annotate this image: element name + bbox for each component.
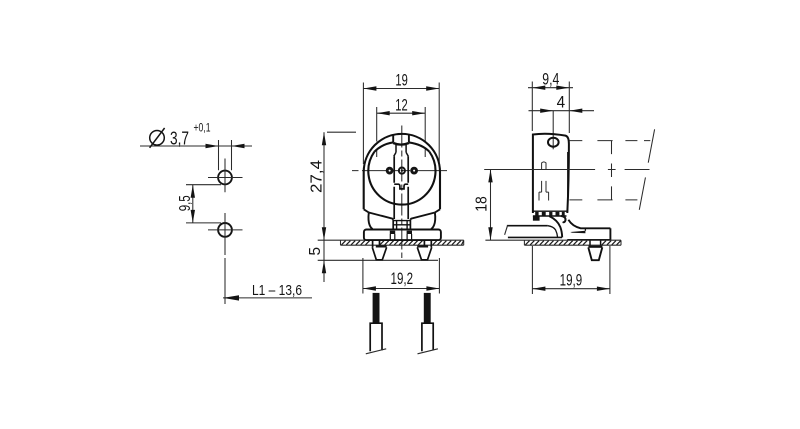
- 12 extension lines: [377, 107, 426, 142]
- svg-text:18: 18: [474, 196, 491, 212]
- neck outer verticals: [393, 219, 410, 229]
- hidden contact channel upper: [542, 162, 546, 170]
- mounting panel left end tick: [340, 240, 342, 245]
- 19,2 arrow right: [426, 286, 439, 290]
- phantom tube top line: [569, 140, 650, 142]
- dimension 19,2 extension lines: [363, 258, 440, 294]
- top hole ellipse: [548, 138, 559, 147]
- svg-text:L1 – 13,6: L1 – 13,6: [252, 283, 302, 299]
- svg-text:+0,1: +0,1: [194, 123, 211, 135]
- 9,4 extension lines: [532, 82, 569, 134]
- left wire break cut: [366, 349, 386, 354]
- neck horizontals: [393, 221, 410, 225]
- snap foot wings bar: [588, 246, 602, 248]
- base right edge: [609, 228, 611, 240]
- extension lines for diameter: [219, 140, 232, 170]
- svg-text:19,9: 19,9: [560, 272, 583, 290]
- svg-text:9,5: 9,5: [177, 195, 194, 211]
- dimension 19,9 line: [532, 288, 610, 290]
- phantom tube bottom line: [569, 199, 641, 201]
- left shoulder V line: [369, 213, 393, 220]
- neck inner verticals: [397, 221, 408, 229]
- dimension 9,5 extension line top: [186, 184, 221, 186]
- svg-text:9,4: 9,4: [542, 71, 559, 89]
- hole axis vertical line: [552, 111, 554, 150]
- base step vertical: [584, 228, 586, 231]
- horizontal centerline of front view: [352, 170, 447, 172]
- dimension 9,5 line: [192, 185, 194, 223]
- 4 arrow pointing right at hole axis: [540, 109, 553, 113]
- slot main verticals: [394, 156, 408, 183]
- snap foot trapezoid: [588, 247, 602, 260]
- dimension 5 line tail: [323, 240, 325, 282]
- dimension 19,9 extension lines: [532, 246, 610, 294]
- left step block: [533, 216, 540, 221]
- dimension diameter 3,7 leader line: [140, 145, 252, 147]
- 19 arrow left: [363, 86, 376, 90]
- lamp tube centerline: [484, 169, 649, 171]
- left foot shoulder: [376, 245, 387, 247]
- vertical centerline of front view: [401, 126, 403, 259]
- mounting panel bottom line: [341, 244, 464, 246]
- 19 extension lines: [363, 83, 439, 165]
- 19 arrow right: [426, 86, 439, 90]
- svg-text:19,2: 19,2: [391, 270, 414, 288]
- right foot shoulder: [417, 245, 428, 247]
- rim arc right: [409, 142, 430, 151]
- right chamfer: [435, 209, 440, 212]
- left wire conductor: [373, 293, 380, 323]
- latch right black cap: [407, 231, 412, 234]
- wire channel bottom line: [508, 236, 562, 238]
- arrow left of hole (pointing right): [206, 144, 219, 148]
- right wire conductor: [424, 293, 431, 323]
- phantom tube break diagonal: [639, 129, 654, 210]
- left foot shank: [373, 240, 380, 247]
- hole H2 horizontal centerline: [208, 229, 243, 231]
- left wire insulation: [370, 323, 382, 351]
- L1 reference line: [223, 297, 312, 299]
- dimension 9,5 extension line bottom: [186, 222, 221, 224]
- 4 arrow pointing left at body edge: [569, 109, 582, 113]
- right lobe edge: [431, 213, 435, 230]
- 12 arrow left: [377, 111, 390, 115]
- 9,4 arrow left: [532, 86, 545, 90]
- wire channel top line: [507, 225, 548, 227]
- keyhole notch: [394, 184, 408, 189]
- svg-text:27,4: 27,4: [308, 160, 325, 193]
- left chamfer: [364, 209, 369, 212]
- slot mouth verticals: [393, 134, 409, 142]
- 19,9 arrow right: [597, 287, 610, 291]
- slot narrow section: [396, 145, 406, 153]
- 5 arrow up (below): [322, 260, 326, 273]
- hole H2: [218, 223, 232, 237]
- body outer dome: [364, 134, 440, 209]
- svg-text:19: 19: [395, 72, 407, 90]
- 12 reference dashes inside dome: [377, 150, 426, 158]
- 27,4 top extension line: [327, 131, 356, 133]
- rim arc left: [374, 142, 393, 151]
- right foot shank: [424, 240, 431, 247]
- hole H1: [218, 171, 232, 185]
- dimension 4 line: [529, 110, 595, 112]
- 12 arrow right: [412, 111, 425, 115]
- svg-text:3,7: 3,7: [170, 128, 189, 149]
- 9,5 arrow down: [191, 210, 195, 223]
- center contact ring: [399, 168, 405, 174]
- diameter symbol: [150, 128, 165, 148]
- dimension 19,2 line: [363, 288, 440, 290]
- right shoulder V line: [410, 213, 435, 220]
- 18 arrow up: [488, 169, 492, 182]
- right wire break cut: [418, 349, 438, 354]
- dimension 27,4 line: [323, 132, 325, 240]
- wire break diagonal: [505, 225, 508, 235]
- left foot trapezoid: [372, 247, 386, 259]
- slot flare left: [394, 152, 396, 156]
- 19,9 arrow left: [532, 287, 545, 291]
- latch left black cap: [390, 231, 395, 234]
- left lobe edge: [369, 213, 373, 230]
- side panel hatching: [525, 241, 620, 245]
- serrated band top: [533, 210, 567, 212]
- 9,4 arrow right: [556, 86, 569, 90]
- base bottom line: [567, 239, 610, 241]
- base right curve: [568, 220, 610, 229]
- right foot trapezoid: [417, 247, 431, 259]
- slot lower verticals: [394, 187, 408, 219]
- 18 arrow down: [488, 227, 492, 240]
- 27,4 / 5 shared arrow down: [322, 227, 326, 240]
- svg-text:4: 4: [557, 93, 566, 111]
- latch right sides: [407, 234, 412, 240]
- 27,4 arrow up: [322, 132, 326, 145]
- left pin contact dot: [386, 167, 394, 175]
- svg-text:5: 5: [307, 247, 324, 256]
- side panel bottom line: [524, 244, 621, 246]
- hidden contact channel lower: [539, 181, 549, 201]
- side panel end ticks: [524, 240, 621, 245]
- 9,5 arrow up: [191, 185, 195, 198]
- saddle curve: [393, 143, 409, 145]
- feet bottom line extension for 5: [318, 259, 438, 261]
- snap foot shank through panel: [590, 240, 601, 245]
- mounting panel hatching: [342, 241, 464, 245]
- mounting panel right end tick: [463, 240, 465, 245]
- right wire insulation: [422, 323, 433, 351]
- dimension 19 line: [363, 88, 439, 90]
- svg-text:12: 12: [395, 96, 407, 114]
- plate top line with extension to 5 dimension: [318, 239, 464, 241]
- bracket inner fillet: [548, 226, 558, 238]
- slot flare right: [406, 152, 408, 156]
- side panel top line with 18 extension: [485, 239, 621, 241]
- dimension 18 line: [490, 169, 492, 240]
- right pin contact dot: [410, 167, 418, 175]
- flange base: [364, 230, 441, 241]
- serrated band bottom: [533, 215, 567, 217]
- dimension 12 line: [377, 112, 426, 114]
- vertical centerline through holes down to L1 reference: [224, 159, 226, 305]
- phantom tube end vertical: [611, 141, 613, 200]
- serration teeth: [535, 212, 565, 216]
- L1 arrow pointing left: [223, 295, 239, 300]
- body outline: [533, 134, 569, 213]
- contact spring hook: [561, 216, 566, 222]
- 19,2 arrow left: [363, 286, 376, 290]
- arrow right of hole (pointing left): [232, 144, 245, 148]
- latch left sides: [390, 234, 395, 240]
- bracket outer fillet: [549, 216, 562, 237]
- base spring wedge: [570, 231, 585, 234]
- hole H1 horizontal centerline: [208, 177, 243, 179]
- dimension 9,4 line: [528, 87, 573, 89]
- inner circle (interrupted at top by slot mouth): [368, 152, 435, 205]
- body inner right line: [567, 152, 569, 212]
